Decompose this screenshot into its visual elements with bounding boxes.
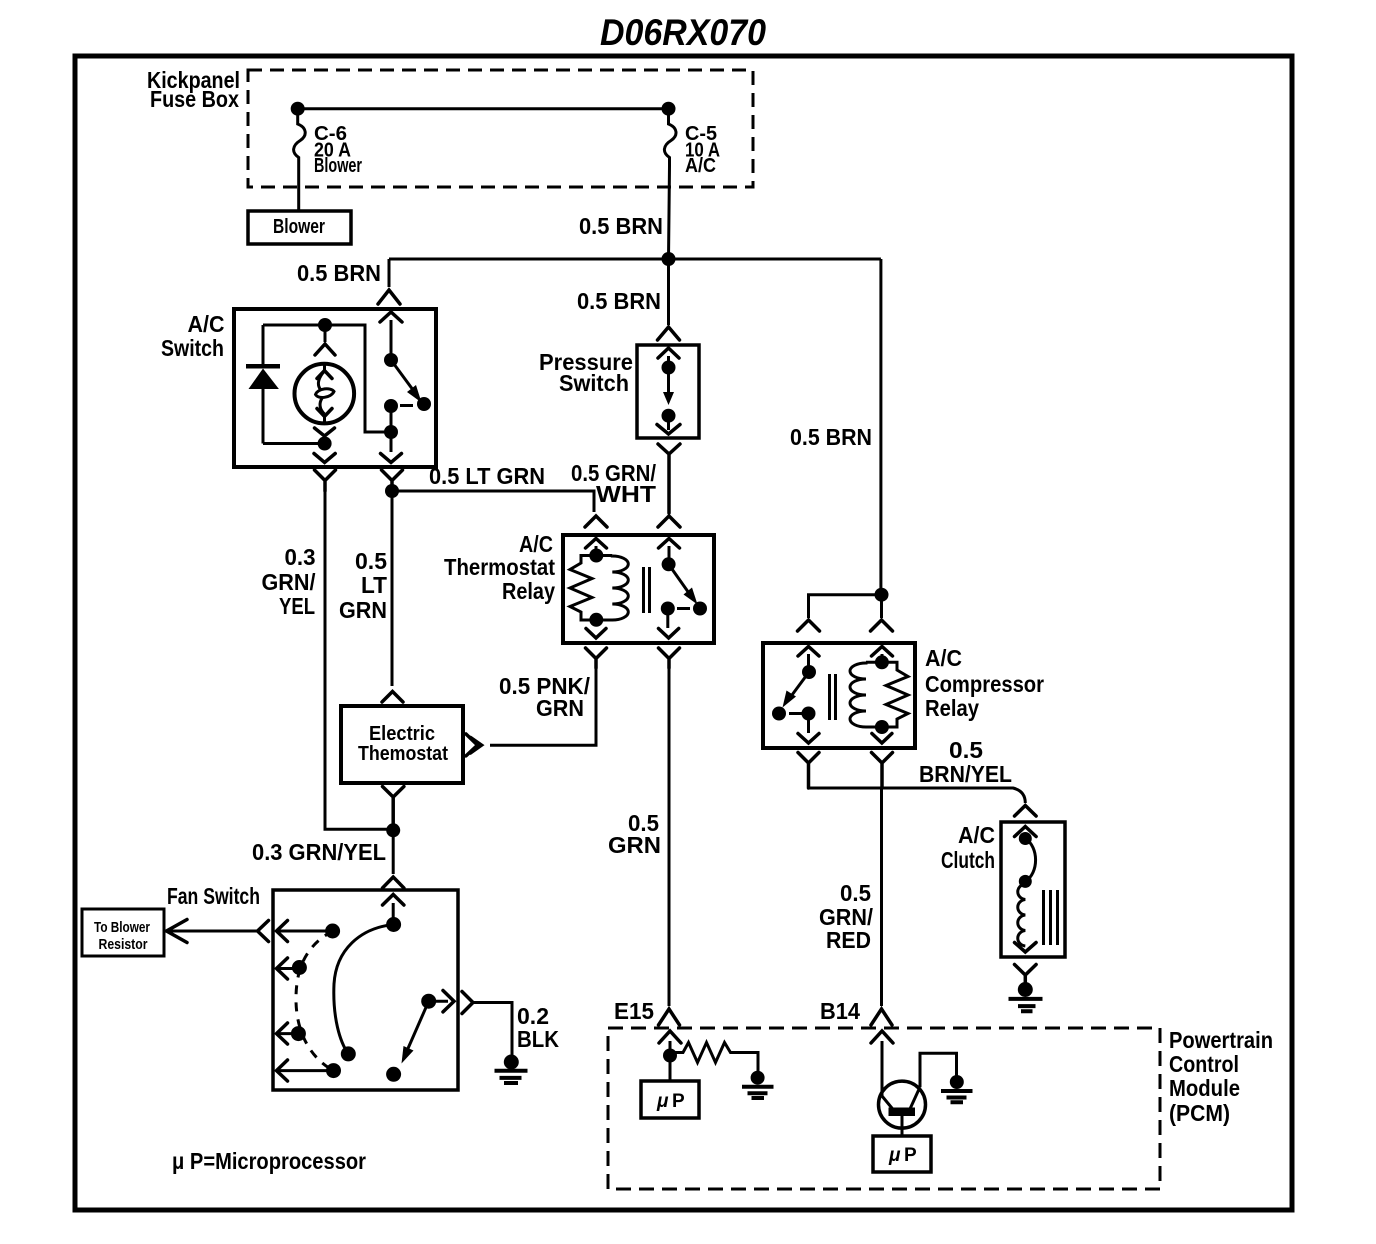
coil entry connector [872, 647, 893, 657]
bottom connector inside box [667, 416, 670, 430]
connector half at relay entry [658, 516, 680, 527]
contact 3 line and arrowhead [278, 1032, 298, 1035]
lamp stem and connector [324, 325, 327, 342]
connector half inside PCM at B14 [871, 1031, 893, 1043]
fuse C-5 10A A/C [664, 109, 676, 259]
node compressor relay feed junction [875, 588, 889, 602]
microprocessor box (B14) [873, 1136, 931, 1172]
relay core bars [830, 674, 836, 720]
node fan switch feed junction [386, 823, 400, 837]
svg-text:Thermostat: Thermostat [444, 554, 555, 580]
connector half inside PCM at E15 [659, 1031, 681, 1043]
compressor link dash [789, 712, 802, 715]
coil entry connector [586, 539, 607, 549]
svg-text:0.5 BRN: 0.5 BRN [577, 288, 661, 314]
svg-text:μ P=Microprocessor: μ P=Microprocessor [172, 1148, 366, 1174]
svg-text:μ: μ [888, 1145, 901, 1166]
node blade contact [417, 397, 431, 411]
compressor switch blade with arrow [789, 672, 809, 699]
ground (A/C clutch) [1018, 982, 1033, 997]
svg-text:YEL: YEL [279, 593, 315, 619]
lamp bottom connector [315, 428, 335, 436]
connector half inside clutch box [1015, 827, 1037, 837]
node fuse C-5 top [662, 102, 676, 116]
connector half outside fan switch right [462, 992, 473, 1014]
node relay blade contact [693, 602, 707, 616]
wire lamp loop right side [263, 325, 391, 432]
svg-text:Control: Control [1169, 1051, 1239, 1077]
connector half at pressure switch feed [658, 327, 680, 340]
svg-text:0.5: 0.5 [355, 548, 387, 574]
relay coil winding (scallops + zigzag) [866, 662, 908, 727]
svg-text:0.5: 0.5 [840, 880, 871, 906]
svg-text:Themostat: Themostat [358, 743, 448, 765]
switch blade with arrow [391, 360, 416, 394]
node clutch coil top [1019, 832, 1032, 845]
node compressor blade contact [772, 707, 786, 721]
wire bus C-6 to C-5 [298, 107, 669, 110]
connector half above electric thermostat [382, 692, 403, 703]
node clutch coil mid [1019, 875, 1032, 888]
To Blower Resistor box [82, 909, 164, 956]
transistor Q1 [879, 1081, 926, 1128]
ground (0.2 BLK) [504, 1055, 519, 1070]
svg-text:μ: μ [656, 1091, 669, 1112]
svg-text:B14: B14 [820, 998, 860, 1024]
svg-text:GRN: GRN [608, 832, 661, 858]
contact 4 line and arrowhead [278, 1069, 334, 1072]
node coil top [875, 655, 889, 669]
connector half at B14 wire end [871, 1009, 892, 1025]
svg-text:D06RX070: D06RX070 [600, 12, 766, 53]
svg-text:Electric: Electric [369, 723, 435, 745]
coil exit connector [586, 629, 606, 639]
connector halves above compressor relay [798, 620, 820, 631]
svg-text:Module: Module [1169, 1075, 1240, 1101]
node pressure top contact [662, 361, 676, 375]
clutch coil winding [1018, 881, 1026, 946]
arrowhead into blower resistor [167, 920, 188, 943]
ground (transistor collector) [950, 1075, 964, 1089]
node fan blade lower contact [386, 1067, 401, 1082]
svg-text:Fan Switch: Fan Switch [167, 883, 260, 909]
pressure switch actuator arrow [667, 368, 670, 396]
Kickpanel Fuse Box dashed enclosure [248, 70, 753, 187]
lamp A/C indicator [295, 364, 355, 424]
fan switch solid rotor arc [334, 925, 394, 1054]
svg-text:Relay: Relay [502, 578, 555, 604]
svg-text:Switch: Switch [161, 335, 224, 361]
pull-up resistor [670, 1043, 758, 1073]
wire main feed horizontal [389, 258, 881, 261]
connector half inside box top [380, 312, 402, 322]
svg-text:A/C: A/C [685, 155, 716, 177]
node compressor switch common [802, 665, 816, 679]
right exit wire [390, 432, 393, 452]
node coil bottom [589, 613, 603, 627]
Blower box [248, 211, 351, 244]
switch exit connector below box [798, 753, 819, 789]
svg-text:Resistor: Resistor [99, 936, 148, 953]
clutch core bars [1044, 890, 1058, 945]
node fan switch common [386, 917, 401, 932]
connector half inside fan switch [383, 895, 404, 906]
node fan blade pivot [421, 994, 436, 1009]
svg-text:0.3: 0.3 [285, 544, 316, 570]
svg-text:P: P [672, 1091, 685, 1112]
wire to top contact [667, 356, 670, 368]
switch output wire and exit connector [666, 609, 669, 629]
svg-text:E15: E15 [614, 998, 654, 1024]
node coil top [589, 549, 603, 563]
svg-text:0.3 GRN/YEL: 0.3 GRN/YEL [252, 839, 386, 865]
svg-text:Fuse Box: Fuse Box [150, 86, 239, 112]
A/C Switch box [234, 309, 436, 467]
diode cathode bar [246, 364, 280, 369]
blade output line and arrowhead to box edge [429, 1000, 448, 1003]
svg-text:0.5: 0.5 [949, 737, 983, 763]
relay link dash [677, 607, 690, 610]
switch entry connector [659, 539, 680, 549]
contact 1 line and arrowhead [278, 930, 333, 933]
node contact 4 [326, 1063, 341, 1078]
connector half above relay coil [585, 516, 607, 527]
node switch output upper [384, 399, 398, 413]
svg-text:Compressor: Compressor [925, 671, 1044, 697]
svg-text:A/C: A/C [188, 311, 225, 337]
wire feed split [809, 595, 882, 618]
relay core bars [644, 567, 650, 613]
diode anode triangle [249, 369, 279, 390]
A/C Thermostat Relay box [563, 535, 714, 643]
node contact 1 [325, 924, 340, 939]
contact 2 line and arrowhead [278, 967, 299, 970]
relay coil winding (zigzag + scallops) [570, 556, 612, 621]
svg-text:Clutch: Clutch [941, 847, 995, 873]
microprocessor box (E15) [641, 1081, 699, 1118]
node LT GRN junction [385, 484, 399, 498]
fan blade with arrow [406, 1001, 429, 1053]
wire pressure switch drop [667, 259, 670, 325]
svg-text:0.5 BRN: 0.5 BRN [297, 260, 381, 286]
left exit connector inside box [314, 454, 335, 463]
connector half above fan switch [383, 877, 404, 888]
wire 0.5 PNK/GRN to electric thermostat [490, 666, 596, 745]
node switch common [384, 353, 398, 367]
svg-text:Switch: Switch [559, 370, 629, 396]
switch exit connector below box [659, 648, 680, 668]
node rotor arc end [341, 1046, 356, 1061]
svg-text:P: P [904, 1145, 917, 1166]
relay switch blade with arrow [669, 564, 691, 596]
wire right column feed [879, 259, 882, 595]
svg-text:Blower: Blower [273, 216, 325, 238]
wire junction to fan switch [392, 830, 395, 874]
A/C Compressor Relay box [763, 643, 915, 748]
node lamp tap [384, 425, 398, 439]
wire to blower resistor [168, 930, 258, 933]
svg-text:(PCM): (PCM) [1169, 1100, 1230, 1126]
node E15 junction [663, 1049, 677, 1063]
wire left drop to A/C switch [388, 259, 391, 287]
node contact 3 [291, 1026, 306, 1041]
coil exit connector [872, 734, 892, 744]
wire A/C switch right exit down to electric thermostat [391, 491, 394, 686]
svg-text:LT: LT [361, 572, 387, 598]
node coil bottom [875, 720, 889, 734]
node compressor switch output [802, 707, 816, 721]
wire switch common [390, 320, 393, 360]
node lamp top [318, 318, 332, 332]
clutch flex loop [1025, 839, 1035, 882]
switch entry connector [798, 647, 819, 657]
node lamp bottom [318, 437, 332, 451]
coil exit connector below box [586, 648, 607, 668]
connector half outside fan switch left [258, 921, 269, 942]
wire 0.5 BRN/YEL to clutch [809, 788, 1026, 803]
fan switch dashed arc [296, 931, 334, 1071]
left exit connector below box [315, 470, 336, 491]
svg-text:BRN/YEL: BRN/YEL [919, 761, 1012, 787]
svg-text:Powertrain: Powertrain [1169, 1027, 1273, 1053]
coil exit connector below box [872, 753, 893, 789]
wire 0.3 GRN/YEL left branch [325, 490, 393, 829]
connector below electric thermostat [383, 787, 404, 831]
Fan Switch box [273, 890, 458, 1090]
svg-text:GRN/: GRN/ [262, 569, 317, 595]
clutch exit connector inside box [1015, 943, 1037, 953]
wire 0.5 GRN/RED down to PCM B14 [880, 788, 883, 1006]
transistor collector wire [920, 1053, 957, 1087]
connector half inside box [658, 348, 679, 358]
svg-text:Blower: Blower [314, 155, 362, 177]
connector half above clutch [1015, 806, 1037, 817]
connector below box and wire [658, 444, 680, 513]
svg-text:A/C: A/C [958, 822, 995, 848]
Pressure Switch box [637, 345, 699, 438]
node contact 2 [292, 960, 307, 975]
node pressure bottom contact [662, 409, 676, 423]
svg-text:GRN: GRN [536, 695, 584, 721]
node fuse C-6 top [291, 102, 305, 116]
wire switch output [390, 406, 393, 432]
svg-text:A/C: A/C [925, 645, 962, 671]
svg-text:Relay: Relay [925, 695, 979, 721]
fuse C-6 20A Blower [294, 109, 306, 211]
wire 0.2 BLK to ground [473, 1003, 512, 1058]
connector below clutch box [1015, 965, 1037, 990]
svg-text:0.5 BRN: 0.5 BRN [790, 424, 872, 450]
node relay switch output [661, 602, 675, 616]
wire E15 to microprocessor [669, 1056, 672, 1082]
svg-text:To Blower: To Blower [94, 919, 150, 936]
connector at electric thermostat right side [466, 734, 478, 756]
wire 0.5 GRN down to PCM E15 [668, 666, 671, 1006]
Powertrain Control Module dashed box [608, 1028, 1160, 1189]
svg-text:RED: RED [826, 927, 871, 953]
A/C Clutch box [1001, 822, 1065, 957]
svg-text:0.5 LT GRN: 0.5 LT GRN [429, 463, 545, 489]
svg-text:GRN: GRN [339, 597, 387, 623]
ground (E15 resistor) [751, 1071, 765, 1085]
node main feed junction [662, 252, 676, 266]
connector half at E15 wire end [659, 1009, 680, 1025]
right exit connector inside box [381, 454, 402, 463]
node relay switch common [662, 557, 676, 571]
connector half at A/C switch feed [378, 290, 400, 304]
mechanical link dash [400, 404, 413, 407]
svg-text:0.5 BRN: 0.5 BRN [579, 213, 663, 239]
switch output wire and exit connector [807, 714, 810, 734]
wire B14 to transistor base [881, 1041, 884, 1096]
diode branch wires [263, 325, 325, 444]
right exit connector below box [382, 470, 403, 491]
wire 0.5 LT GRN horizontal [392, 491, 594, 512]
svg-text:WHT: WHT [596, 481, 656, 507]
Electric Themostat box [341, 706, 463, 783]
